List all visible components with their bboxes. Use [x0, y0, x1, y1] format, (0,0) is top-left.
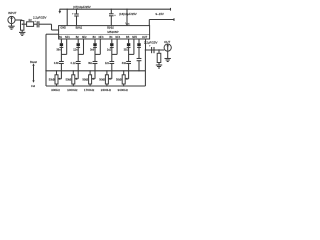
- svg-text:(16)10µF/25V: (16)10µF/25V: [119, 12, 137, 16]
- svg-text:50kB: 50kB: [66, 79, 72, 82]
- svg-text:NF4: NF4: [115, 36, 120, 39]
- svg-text:2400Hz: 2400Hz: [101, 88, 112, 92]
- svg-text:39n: 39n: [56, 48, 61, 51]
- svg-text:OUT: OUT: [164, 40, 170, 44]
- svg-text:NF1: NF1: [65, 36, 70, 39]
- svg-text:0.12: 0.12: [71, 62, 76, 65]
- svg-text:1n2: 1n2: [107, 48, 112, 51]
- svg-text:(47)10µF/25V: (47)10µF/25V: [73, 5, 91, 9]
- svg-text:2.2µF/25V: 2.2µF/25V: [33, 16, 46, 20]
- svg-text:OUT: OUT: [142, 36, 148, 39]
- svg-text:1700Hz: 1700Hz: [84, 88, 95, 92]
- svg-text:NF2: NF2: [82, 36, 87, 39]
- svg-text:3400Hz: 3400Hz: [118, 88, 129, 92]
- svg-text:B3: B3: [93, 36, 97, 39]
- svg-text:B2: B2: [76, 36, 80, 39]
- svg-text:B(H)1: B(H)1: [76, 27, 83, 30]
- svg-text:12n: 12n: [105, 62, 110, 65]
- svg-text:+: +: [114, 14, 116, 17]
- svg-text:1000Hz: 1000Hz: [67, 88, 78, 92]
- svg-text:12n: 12n: [73, 48, 78, 51]
- svg-text:GND: GND: [60, 27, 66, 30]
- svg-text:50kB: 50kB: [116, 79, 122, 82]
- svg-text:+: +: [149, 45, 151, 48]
- svg-text:9–15V: 9–15V: [156, 12, 164, 16]
- svg-text:NF3: NF3: [99, 36, 104, 39]
- svg-text:Cut: Cut: [31, 84, 35, 88]
- svg-text:INPUT: INPUT: [8, 11, 17, 15]
- svg-text:NF5: NF5: [132, 36, 137, 39]
- svg-text:50kB: 50kB: [82, 79, 88, 82]
- svg-text:Boost: Boost: [30, 60, 37, 64]
- svg-text:+: +: [72, 13, 74, 16]
- svg-text:2.2µF/25V: 2.2µF/25V: [144, 40, 157, 44]
- svg-text:50kB: 50kB: [49, 79, 55, 82]
- svg-text:3n9: 3n9: [122, 62, 127, 65]
- svg-text:B5: B5: [126, 36, 130, 39]
- svg-text:3n9: 3n9: [90, 48, 95, 51]
- svg-text:300Hz: 300Hz: [51, 88, 60, 92]
- svg-text:0.39: 0.39: [54, 62, 59, 65]
- svg-text:B4: B4: [109, 36, 113, 39]
- svg-text:B(H)2: B(H)2: [107, 27, 114, 30]
- svg-text:391: 391: [124, 48, 129, 51]
- svg-text:39n: 39n: [88, 62, 93, 65]
- svg-text:M5206P: M5206P: [107, 30, 118, 34]
- svg-text:B1: B1: [59, 36, 63, 39]
- svg-text:50kB: 50kB: [99, 79, 105, 82]
- svg-text:+: +: [34, 20, 36, 23]
